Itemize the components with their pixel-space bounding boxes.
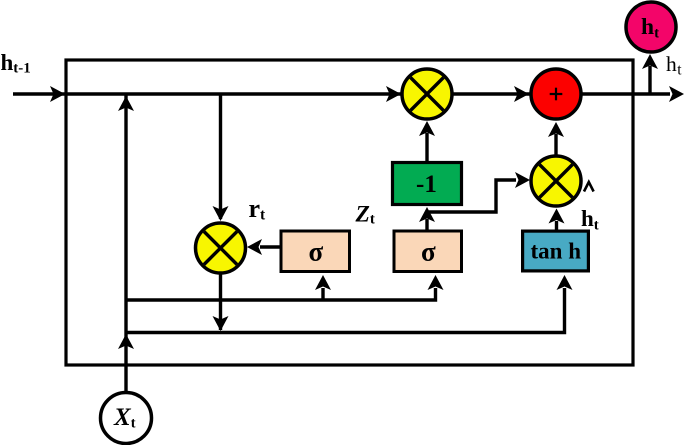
adder node bbox=[531, 69, 581, 119]
wire: vertical Xt line bbox=[124, 94, 127, 392]
arrowhead elbow into right multiplier bbox=[515, 172, 530, 188]
arrowhead up into sigma1 bbox=[315, 275, 331, 290]
-1 box bbox=[393, 163, 462, 205]
wire: right multiplier up to adder bbox=[554, 134, 557, 156]
arrowhead Xt into main line bbox=[118, 96, 134, 111]
arrowhead left into rt multiplier bbox=[247, 239, 262, 255]
ht output circle (pink) bbox=[626, 2, 676, 52]
wire: line B feeding tanh bbox=[126, 288, 565, 333]
sigma gate 2 bbox=[394, 231, 462, 272]
arrowhead output right bbox=[669, 86, 684, 102]
svg-text:-1: -1 bbox=[416, 171, 437, 198]
wire: elbow from sigma2 output to right multiplier bbox=[429, 180, 516, 212]
arrowhead into box left bbox=[50, 86, 65, 102]
wire: sigma1 to rt multiplier bbox=[260, 245, 280, 248]
arrowhead up into tanh-mult from tanh bbox=[549, 209, 565, 224]
arrowhead into adder bbox=[514, 86, 529, 102]
arrowhead up into sigma2 bbox=[428, 275, 444, 290]
wire: main horizontal h(t-1) line bbox=[13, 92, 670, 95]
wire: vertical line to rt multiplier bbox=[219, 94, 222, 219]
arrowhead up into ht circle bbox=[642, 54, 658, 69]
svg-text:tan h: tan h bbox=[531, 239, 582, 264]
arrowhead down into rt multiplier bbox=[213, 206, 229, 221]
wire: branch of line A up to first sigma bbox=[321, 288, 324, 300]
arrowhead up into tanh bbox=[557, 275, 573, 290]
wire: line A feeding sigma gates bbox=[126, 288, 436, 300]
sigma gate 1 bbox=[281, 231, 350, 272]
arrowhead into top multiplier bbox=[386, 86, 401, 102]
svg-text:σ: σ bbox=[309, 237, 324, 267]
arrowhead Xt into line B bbox=[118, 334, 134, 349]
tanh gate bbox=[523, 231, 589, 271]
wire: tanh up to right multiplier bbox=[555, 221, 558, 230]
wire: up to ht output circle bbox=[648, 66, 651, 94]
cell boundary box bbox=[66, 60, 633, 365]
arrowhead rt down into line B bbox=[213, 316, 229, 331]
arrowhead up into adder from right multiplier bbox=[548, 122, 564, 137]
multiplier node (right, candidate) bbox=[531, 156, 581, 206]
wire: rt multiplier down to line B bbox=[219, 272, 222, 330]
svg-text:σ: σ bbox=[421, 237, 436, 267]
arrowhead up into top multiplier from -1 bbox=[419, 121, 435, 136]
wire: -1 box up to top multiplier bbox=[425, 133, 428, 161]
label caret (hat) bbox=[584, 182, 594, 192]
multiplier node (top) bbox=[402, 69, 452, 119]
multiplier node rt (left) bbox=[196, 223, 246, 273]
wire: sigma2 up to -1 box bbox=[425, 219, 428, 230]
Xt input circle bbox=[101, 393, 152, 444]
arrowhead up into -1 box bbox=[419, 207, 435, 222]
